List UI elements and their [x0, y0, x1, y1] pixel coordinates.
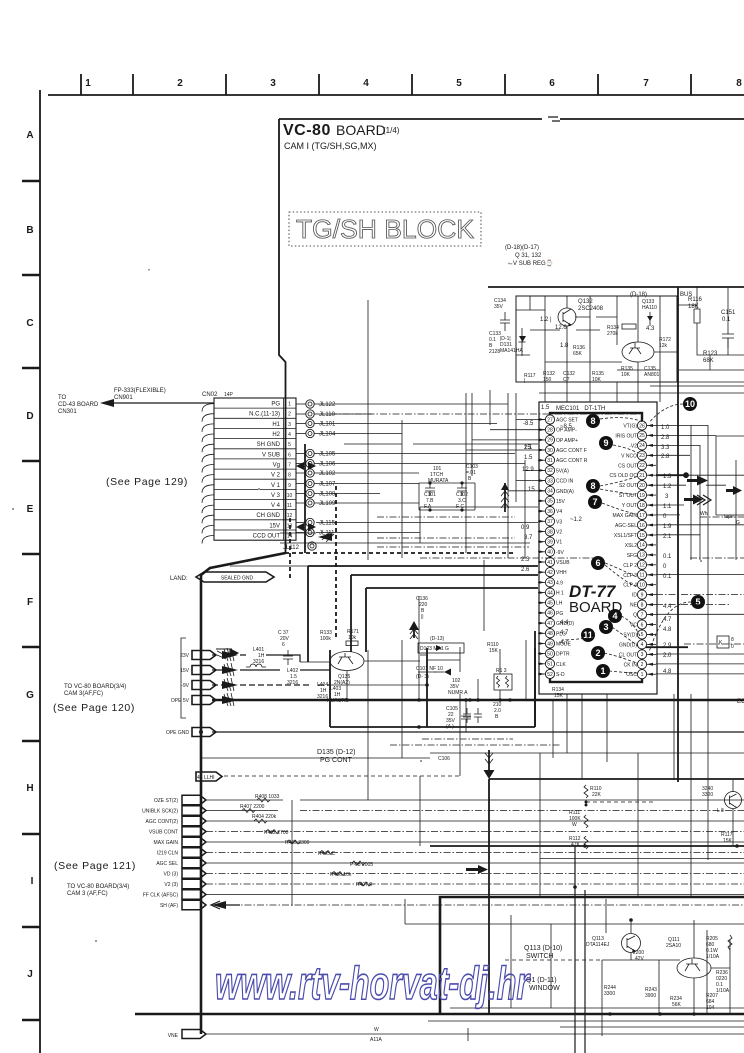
left ruler vertical	[39, 90, 41, 1053]
resistor R205 stack	[706, 935, 732, 960]
svg-text:TO VC-80 BOARD(3/4): TO VC-80 BOARD(3/4)	[64, 684, 126, 690]
small component box right	[717, 636, 734, 650]
svg-text:⌙V SUB REG⌚: ⌙V SUB REG⌚	[508, 259, 553, 267]
connector flag OPE 5V	[171, 696, 216, 705]
svg-text:CS OLD OC: CS OLD OC	[609, 473, 637, 479]
svg-text:CD-43 BOARD: CD-43 BOARD	[58, 402, 99, 408]
mid verticals to bottom	[368, 640, 460, 846]
svg-text:1: 1	[85, 78, 91, 89]
pin 51 CLK	[538, 659, 566, 668]
wire bus H rows	[206, 800, 744, 895]
svg-text:15: 15	[639, 533, 645, 539]
node 8	[586, 414, 600, 428]
svg-text:AGC SEL: AGC SEL	[156, 861, 178, 867]
jumper JL102	[296, 469, 336, 477]
svg-text:36: 36	[547, 509, 553, 515]
svg-text:6: 6	[288, 452, 291, 458]
svg-text:V4: V4	[556, 509, 562, 515]
pin 44 H 1	[538, 588, 564, 597]
svg-text:5: 5	[695, 597, 700, 607]
resistor R136	[573, 345, 585, 357]
top block boundary line	[488, 286, 744, 288]
svg-text:NUMR A: NUMR A	[448, 690, 468, 696]
svg-text:9: 9	[641, 592, 644, 598]
resistor pack box	[494, 668, 512, 690]
svg-text:(See Page 120): (See Page 120)	[53, 702, 135, 714]
svg-text:JL105: JL105	[319, 452, 336, 458]
jumper JL109	[296, 499, 336, 507]
connector flag FF CLK (AFSC)	[143, 890, 206, 899]
diode D131	[500, 328, 526, 356]
svg-text:TO VC-80 BOARD(3/4): TO VC-80 BOARD(3/4)	[67, 884, 129, 890]
dashed rows D-E band	[330, 414, 640, 558]
pin voltage labels right	[661, 425, 672, 675]
wire 15V row	[212, 669, 330, 671]
svg-text:CLP 2: CLP 2	[623, 563, 637, 569]
jumper JL106	[296, 459, 336, 467]
svg-text:19: 19	[639, 493, 645, 499]
svg-text:CCD OUT: CCD OUT	[253, 534, 281, 540]
top-right bus lines	[539, 382, 744, 393]
svg-text:1.2 |: 1.2 |	[540, 317, 552, 323]
svg-text:AGC CONT F: AGC CONT F	[556, 448, 587, 454]
svg-text:SEALED GND: SEALED GND	[221, 576, 254, 582]
svg-text:DPTR: DPTR	[556, 652, 570, 658]
dashes below analog box	[390, 739, 560, 745]
sealed gnd symbol	[196, 572, 274, 582]
resistor R116	[688, 287, 703, 337]
verticals below IC	[540, 694, 733, 897]
svg-text:(1/4): (1/4)	[383, 126, 400, 135]
label FP-333 FLEXIBLE	[114, 388, 166, 401]
svg-text:H2: H2	[272, 432, 280, 438]
bold dashed vertical below connector	[289, 518, 291, 578]
svg-text:2SC2408: 2SC2408	[578, 306, 604, 312]
svg-text:R117: R117	[524, 373, 536, 379]
svg-text:AGC CONT(2): AGC CONT(2)	[146, 819, 179, 825]
main vertical bus right of IC	[677, 287, 679, 782]
connector flag OPE GND	[166, 728, 216, 737]
svg-text:(D-13): (D-13)	[430, 636, 445, 642]
svg-text:6: 6	[282, 642, 285, 648]
TG/SH BLOCK label	[289, 212, 481, 246]
pin 11 CLP 3	[623, 570, 656, 579]
wires right of IC	[656, 425, 744, 860]
svg-text:23V: 23V	[180, 653, 190, 659]
capacitor pair near C106	[463, 708, 482, 723]
svg-text:3: 3	[603, 622, 608, 632]
svg-text:G: G	[736, 520, 740, 526]
svg-text:D: D	[26, 411, 33, 422]
wire to CD-43 with arrow	[100, 399, 214, 407]
pin 43 4.9	[538, 578, 563, 587]
scan specks	[12, 269, 702, 942]
label D135 PG CONT	[317, 749, 356, 764]
svg-text:17: 17	[639, 513, 645, 519]
pin 45 LH	[538, 598, 563, 607]
badge leader curves	[562, 404, 691, 673]
svg-text:45 LLHI: 45 LLHI	[197, 775, 215, 781]
label TO VC-80 BOARD 3/4 I	[67, 884, 129, 897]
svg-text:V1: V1	[556, 540, 562, 546]
svg-text:SFG: SFG	[627, 553, 637, 559]
pin 41 VSUB	[538, 557, 570, 566]
bus corner turns above bottom box	[405, 899, 744, 1008]
svg-text:~1.2: ~1.2	[570, 517, 583, 523]
svg-text:3.3: 3.3	[661, 445, 670, 451]
svg-text:V2 (3): V2 (3)	[164, 882, 178, 888]
left zone ticks	[22, 181, 40, 1020]
svg-text:(D-18)(D-17): (D-18)(D-17)	[505, 245, 539, 251]
svg-text:2: 2	[595, 648, 600, 658]
svg-text:32: 32	[547, 468, 553, 474]
svg-text:25: 25	[639, 433, 645, 439]
ruler tick 5	[411, 74, 413, 95]
VC-80 board outline	[279, 119, 744, 553]
V SUB REG caption	[505, 245, 553, 267]
svg-text:7: 7	[641, 612, 644, 618]
resistor R236 stack	[716, 970, 730, 994]
svg-text:S2 OUT: S2 OUT	[619, 483, 637, 489]
svg-text:0.1: 0.1	[663, 554, 672, 560]
resistor R132	[543, 371, 555, 383]
svg-text:27: 27	[547, 417, 553, 423]
svg-text:C?: C?	[563, 377, 570, 383]
svg-text:5V(A): 5V(A)	[556, 468, 569, 474]
svg-text:40: 40	[547, 550, 553, 556]
svg-text:51: 51	[547, 662, 553, 668]
arrow right mid bus	[466, 865, 488, 874]
labels Wh tape	[700, 511, 740, 526]
junction dots bold bus	[573, 801, 739, 889]
pin 37 V3	[538, 517, 562, 526]
pin 10 CLP 4	[623, 580, 656, 589]
bold arrow right 1	[687, 476, 708, 486]
wire mesh connector to IC	[230, 300, 538, 566]
svg-text:Vg: Vg	[273, 463, 280, 469]
svg-text:46: 46	[547, 611, 553, 617]
svg-text:6: 6	[641, 622, 644, 628]
svg-text:AGC SET: AGC SET	[556, 418, 578, 424]
svg-text:I219 CLN: I219 CLN	[157, 851, 179, 857]
resistor R402	[264, 830, 289, 837]
pin 47 GND(D)	[538, 619, 574, 628]
pin 7 Q	[633, 610, 656, 619]
svg-text:28: 28	[547, 428, 553, 434]
op-amp U1 : IC MEC101 body	[550, 413, 642, 682]
svg-text:JL101: JL101	[319, 422, 336, 428]
pin 34 GND(A)	[538, 486, 574, 495]
svg-text:Q 31, 132: Q 31, 132	[515, 253, 542, 259]
svg-text:V SUB: V SUB	[262, 452, 280, 458]
svg-text:OP AMP+: OP AMP+	[556, 438, 578, 444]
svg-text:JL104: JL104	[319, 432, 336, 438]
resistor R407	[240, 804, 265, 813]
label TO CD-43 BOARD	[58, 395, 99, 415]
wire OPE 5V row	[212, 699, 744, 702]
svg-text:A: A	[26, 130, 33, 141]
svg-text:65K: 65K	[573, 351, 583, 357]
transistor Q113	[586, 934, 641, 953]
svg-text:12: 12	[639, 563, 645, 569]
pin 21 CS OLD OC	[609, 471, 656, 480]
verticals analog box	[419, 560, 526, 700]
feeder wires into IC left pins	[466, 420, 545, 491]
pin 4 GND(D)	[619, 640, 656, 649]
svg-text:2: 2	[177, 78, 183, 89]
hatch arrow jumper top	[216, 649, 238, 659]
svg-text:JL106: JL106	[319, 462, 336, 468]
svg-text:LH: LH	[556, 601, 563, 607]
svg-text:I: I	[31, 876, 34, 887]
svg-text:CS OUT: CS OUT	[618, 463, 637, 469]
svg-text:4.7: 4.7	[560, 640, 569, 646]
svg-text:V NCO: V NCO	[621, 453, 637, 459]
svg-text:TO: TO	[58, 395, 67, 401]
pin 32 5V(A)	[538, 466, 569, 475]
pin 6 VC	[630, 620, 656, 629]
svg-text:-8.5: -8.5	[523, 421, 534, 427]
svg-text:43: 43	[547, 580, 553, 586]
pin 48 PLG	[538, 629, 566, 638]
svg-text:22K: 22K	[592, 792, 602, 798]
jumper JL122	[296, 400, 336, 408]
connector flag VSUB CONT	[149, 827, 206, 836]
wire 45 CONT dashed	[224, 775, 460, 777]
svg-text:S-D: S-D	[556, 672, 565, 678]
svg-text:22: 22	[639, 463, 645, 469]
node 4	[608, 609, 622, 623]
svg-text:47: 47	[547, 621, 553, 627]
svg-text:4.9: 4.9	[556, 580, 563, 586]
connector flag OZE ST(2)	[154, 795, 206, 804]
connector flag AGC CONT(2)	[146, 816, 207, 825]
svg-text:42: 42	[547, 570, 553, 576]
svg-text:1/10A: 1/10A	[706, 954, 720, 960]
svg-text:Wh: Wh	[700, 511, 708, 517]
svg-text:SY(D): SY(D)	[623, 633, 637, 639]
inner box verticals	[575, 846, 585, 1053]
svg-text:Y OUT: Y OUT	[622, 503, 637, 509]
pin 27 AGC SET	[538, 415, 578, 424]
diamond arrows row Vg	[296, 462, 316, 470]
svg-text:49: 49	[547, 641, 553, 647]
pin 22 CS OUT	[618, 461, 656, 470]
resistor R404	[252, 814, 277, 823]
transistor Q132	[558, 299, 604, 326]
bold box lower-left analog	[330, 648, 535, 727]
svg-text:41: 41	[547, 560, 553, 566]
pin 23 V NCO	[621, 451, 656, 460]
svg-text:H1: H1	[272, 422, 280, 428]
svg-text:A11A: A11A	[370, 1037, 383, 1043]
svg-text:CLK: CLK	[556, 662, 566, 668]
ruler tick 6	[504, 74, 506, 95]
pin 13 SFG	[627, 550, 656, 559]
svg-text:6: 6	[549, 78, 555, 89]
connector flag -9V	[181, 681, 216, 690]
svg-text:150: 150	[543, 377, 552, 383]
svg-text:1.5: 1.5	[541, 405, 550, 411]
svg-text:TG/SH BLOCK: TG/SH BLOCK	[296, 214, 475, 244]
svg-text:MA141HA: MA141HA	[500, 348, 523, 354]
pin 35 15V	[538, 496, 566, 505]
bold pin wires right	[646, 473, 688, 647]
connector flag V2 (3)	[164, 879, 206, 888]
svg-text:GND(A): GND(A)	[556, 489, 574, 495]
dashes right of IC	[656, 517, 744, 644]
svg-text:E: E	[27, 504, 34, 515]
ruler tick 4	[318, 74, 320, 95]
connector flag I219 CLN	[157, 848, 206, 857]
capacitor C137	[278, 630, 293, 665]
svg-text:15K: 15K	[489, 648, 499, 654]
top ruler line	[48, 94, 744, 96]
pin 33 CCD IN	[538, 476, 574, 485]
svg-text:-V2: -V2	[629, 443, 637, 449]
svg-text:H: H	[26, 783, 33, 794]
pin 26 VT(G)	[623, 421, 656, 430]
svg-text:15K: 15K	[554, 693, 564, 699]
svg-text:8: 8	[288, 473, 291, 479]
svg-text:47K: 47K	[571, 842, 581, 848]
junction dots bottom	[608, 918, 696, 1016]
svg-text:ID: ID	[632, 593, 637, 599]
svg-text:V 3: V 3	[271, 493, 281, 499]
svg-text:~8.5: ~8.5	[560, 424, 573, 430]
resistor R207 stack	[706, 993, 718, 1011]
connector CN02	[202, 392, 296, 544]
pin 8 NE	[630, 600, 656, 609]
connector flag SH (AF)	[160, 900, 206, 909]
bottom thin bus lines	[428, 1008, 744, 1027]
ruler tick 7	[597, 74, 599, 95]
svg-text:8: 8	[641, 602, 644, 608]
svg-text:CAM 3 (AF,FC): CAM 3 (AF,FC)	[67, 891, 108, 897]
svg-text:JL107: JL107	[319, 482, 336, 488]
svg-text:N.C.(11-13): N.C.(11-13)	[249, 412, 280, 418]
resistor R134b	[552, 687, 564, 699]
bold column left of jumpers	[304, 444, 306, 553]
label TO VC-80 BOARD 3/4 G	[64, 684, 126, 697]
capacitor sub-circuit C101 C102	[419, 464, 478, 512]
capacitor C151	[721, 310, 736, 348]
svg-text:V 4: V 4	[271, 503, 281, 509]
svg-text:10: 10	[639, 583, 645, 589]
svg-text:R408 1033: R408 1033	[255, 794, 280, 800]
pin 29 OP AMP+	[538, 435, 578, 444]
svg-text:4.7: 4.7	[663, 617, 672, 623]
pin 3 CL OUT	[619, 650, 656, 659]
bottom block thick box	[440, 897, 744, 1014]
svg-text:34: 34	[547, 489, 553, 495]
svg-text:31: 31	[547, 458, 553, 464]
svg-text:VNE: VNE	[168, 1033, 179, 1039]
svg-text:VSUB: VSUB	[556, 560, 570, 566]
svg-text:L 8: L 8	[717, 808, 724, 814]
resistor R243	[645, 987, 657, 999]
pin 14 XSL2	[625, 540, 656, 549]
svg-text:R123: R123	[703, 351, 718, 357]
bold bus H band	[430, 845, 744, 847]
svg-text:4.7: 4.7	[560, 630, 569, 636]
jumper JL112	[283, 542, 316, 551]
jumper JL108	[296, 489, 336, 497]
svg-text:4: 4	[641, 642, 644, 648]
svg-text:21: 21	[639, 473, 645, 479]
svg-text:JL109: JL109	[319, 501, 336, 507]
svg-text:XSL2: XSL2	[625, 543, 637, 549]
svg-text:0.9: 0.9	[521, 525, 530, 531]
ruler tick 1	[80, 74, 82, 95]
svg-text:11: 11	[639, 573, 644, 579]
DT-77 board outline	[539, 402, 657, 694]
svg-text:CN02: CN02	[202, 392, 218, 398]
pin 28 OP AMP-	[538, 425, 577, 434]
resistor R171	[346, 629, 359, 646]
resistor R110b	[487, 642, 499, 654]
connector flag UNIBLK SCK(2)	[142, 806, 206, 815]
bold up arrow mid	[409, 621, 419, 639]
svg-text:1: 1	[641, 672, 644, 678]
node voltages top	[540, 317, 655, 349]
transistor Q101	[702, 786, 742, 844]
node 10	[683, 397, 697, 411]
svg-text:52: 52	[547, 672, 553, 678]
jumper JL115	[296, 518, 336, 526]
pin 46 PG	[538, 608, 563, 617]
svg-text:CAM I (TG/SH,SG,MX): CAM I (TG/SH,SG,MX)	[284, 141, 377, 151]
transistor Q111	[666, 937, 711, 978]
thin F band wires	[280, 507, 530, 543]
svg-text:HA110: HA110	[642, 305, 657, 311]
svg-text:9: 9	[603, 438, 608, 448]
svg-text:VT(G): VT(G)	[623, 424, 637, 430]
svg-text:15V: 15V	[556, 499, 566, 505]
bold L wires into IC	[308, 566, 538, 662]
junction dots on OPE5V rail	[417, 698, 512, 729]
wire 23V row	[212, 655, 300, 662]
bold down arrow onto bus	[484, 750, 495, 779]
svg-text:PG: PG	[271, 402, 280, 408]
svg-text:CAM 3(AF,FC): CAM 3(AF,FC)	[64, 691, 103, 697]
svg-text:VHH: VHH	[556, 570, 567, 576]
svg-text:||: ||	[421, 614, 424, 620]
wires right of box	[677, 287, 744, 370]
svg-text:JL115: JL115	[319, 521, 336, 527]
svg-text:tape: tape	[724, 514, 734, 520]
pin 39 V1	[538, 537, 562, 546]
resistor R406	[330, 872, 352, 879]
G band component wires	[300, 647, 466, 732]
svg-text:18: 18	[639, 503, 645, 509]
pin 38 V2	[538, 527, 562, 536]
svg-text:2128: 2128	[489, 349, 500, 355]
inductor L401	[246, 647, 266, 667]
resistor R443	[318, 851, 335, 858]
svg-text:16: 16	[639, 523, 645, 529]
connector flag VD (3)	[164, 869, 206, 878]
svg-text:6: 6	[595, 558, 600, 568]
svg-text:5: 5	[641, 632, 644, 638]
svg-text:F: F	[27, 597, 33, 608]
svg-text:|: |	[524, 378, 525, 384]
svg-text:D135 (D-12): D135 (D-12)	[317, 749, 356, 756]
svg-text:29: 29	[547, 438, 553, 444]
svg-text:4: 4	[363, 78, 369, 89]
connector flag VNE	[168, 1027, 744, 1043]
svg-text:JL122: JL122	[319, 402, 336, 408]
